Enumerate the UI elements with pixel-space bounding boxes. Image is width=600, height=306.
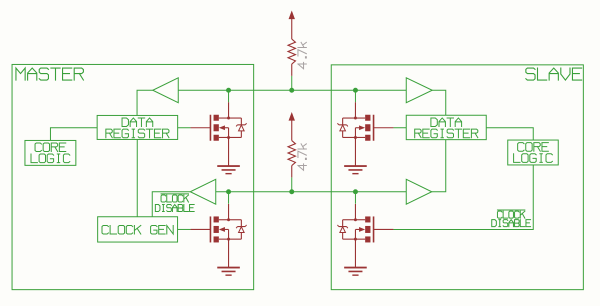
junction SDA / master drain [226, 88, 231, 93]
block slave DATA REGISTER [406, 115, 486, 139]
block master CLOCK GEN [98, 217, 178, 242]
wire master data gate net stub [178, 127, 191, 129]
wire slave clock buffer to data-register [432, 140, 446, 192]
wire SDA to pull-up R1 [291, 76, 293, 90]
junction SCL / slave drain [353, 189, 358, 194]
wire SCL drop to slave mosfet drain [354, 192, 356, 204]
junction SCL / master drain [226, 189, 231, 194]
wire master clock gate net stub [178, 228, 191, 230]
wire SCL bus [216, 191, 407, 193]
wire SCL to pull-up R2 [291, 177, 293, 191]
label MASTER [16, 68, 83, 80]
junction SDA / slave drain [353, 88, 358, 93]
wire SDA bus [178, 89, 406, 91]
junction SCL / R2 [289, 189, 294, 194]
block master DATA REGISTER [97, 115, 177, 139]
wire SDA drop to master mosfet drain [228, 90, 230, 102]
ground master clock [217, 267, 240, 276]
ground slave clock [344, 267, 367, 276]
block slave CORE LOGIC [508, 140, 559, 165]
wire master data-register to buffer [137, 90, 153, 115]
wire slave buffer to data-register [432, 90, 446, 115]
wire master data-register to clock gen [136, 139, 138, 216]
transistor Q2 master clock NMOS [191, 204, 247, 268]
transistor Q3 slave data NMOS [337, 102, 393, 166]
box MASTER outline [12, 64, 254, 289]
wire slave data gate net stub [393, 127, 406, 129]
wire SDA drop to slave mosfet drain [354, 90, 356, 102]
ground master data [217, 165, 240, 174]
power VCC arrow + resistor R1 4.7k (SDA pull-up) [288, 11, 295, 76]
buffer master clock (points left) [190, 179, 216, 204]
value label 4.7k (R1) [298, 42, 306, 68]
net label CLOCK DISABLE (master) with overbar [155, 194, 194, 212]
wire SCL drop to master mosfet drain [228, 192, 230, 204]
wire master clock buffer to clock gen [152, 192, 190, 217]
label SLAVE [526, 68, 582, 80]
value label 4.7k (R2) [298, 144, 306, 170]
transistor Q1 master data NMOS [191, 102, 247, 166]
wire master data-register to core logic [50, 128, 97, 141]
buffer master data (input buffer, points left) [153, 78, 179, 103]
block master CORE LOGIC [25, 140, 76, 165]
power VCC arrow + resistor R2 4.7k (SCL pull-up) [288, 112, 295, 177]
buffer slave clock (points right) [406, 179, 432, 204]
net label CLOCK DISABLE (slave) with overbar [492, 210, 531, 227]
wire slave core logic to clock gate (CLOCK DISABLE net) [393, 165, 533, 230]
transistor Q4 slave clock NMOS [337, 204, 393, 268]
buffer slave data (points right) [406, 78, 432, 103]
wire slave data-register to core logic [486, 128, 533, 140]
junction SDA / R1 [289, 88, 294, 93]
box SLAVE outline [331, 65, 583, 290]
ground slave data [344, 165, 367, 174]
